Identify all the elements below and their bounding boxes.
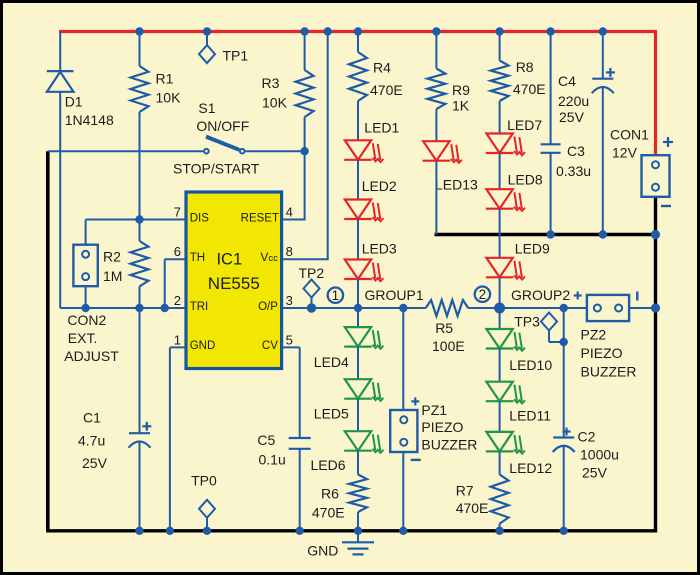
label R3 [262,75,280,91]
node rail-R4 junction [354,27,362,35]
svg-text:C3: C3 [567,143,585,159]
label PZ2 [581,327,607,343]
wire R6 to ground rail [357,512,359,531]
label C4 [558,73,576,89]
svg-text:TH: TH [190,252,205,264]
pin number 7 [174,205,181,220]
svg-text:LED8: LED8 [508,171,543,187]
pin number 8 [286,244,293,259]
label R9 [452,82,470,98]
pin number 2 [174,293,181,308]
svg-text:CON1: CON1 [610,127,649,143]
svg-text:1M: 1M [103,268,122,284]
polarity plus C4 [606,68,615,77]
wire TRI to C1 [139,308,141,433]
wire rail to C4 [602,32,604,79]
wire CV pin stub [282,346,300,348]
svg-text:LED7: LED7 [507,117,542,133]
pin number 6 [174,244,181,259]
label R2 1M [103,268,122,284]
label TP0 [191,473,217,489]
polarity plus C1 [142,422,151,431]
capacitor C4 [592,79,614,94]
resistor R7 [491,475,509,524]
svg-text:4: 4 [286,205,293,220]
svg-text:470E: 470E [312,504,345,520]
svg-text:LED2: LED2 [362,178,397,194]
led LED12 [486,432,525,454]
wire TP0 stub [206,518,208,531]
wire R9 to LED13 [435,109,437,141]
svg-text:LED13: LED13 [435,176,478,192]
capacitor C2 [553,438,575,453]
pin label CV [262,340,278,352]
label C1 [83,410,101,426]
wire GND pin down [169,347,171,530]
resistor R4 [349,52,367,101]
label IC1 [216,251,242,269]
wire black left vertical [46,151,50,531]
wire TRI line [60,307,186,309]
label R9 1K [452,98,470,114]
wire +12V red top rail [59,30,656,33]
wire DIS line [86,219,186,221]
label R2 [103,249,121,265]
svg-text:GND: GND [190,340,216,352]
svg-text:R1: R1 [156,71,174,87]
svg-text:R8: R8 [516,59,534,75]
svg-text:S1: S1 [198,100,215,116]
wire LED1 to LED2 [357,160,359,200]
svg-text:BUZZER: BUZZER [581,364,637,380]
label EXT. [68,330,98,346]
svg-text:4.7u: 4.7u [78,433,105,449]
svg-text:2: 2 [174,293,181,308]
label C4 25V [559,109,585,125]
node TP0-ground junction [203,527,211,535]
label R5 [435,320,453,336]
svg-text:BUZZER: BUZZER [421,437,477,453]
label TP3 [514,313,540,329]
wire R5 to group2 [468,307,564,309]
label C2 1000u [580,446,619,462]
node LED3-output junction [354,304,362,312]
polarity plus CON1 [663,137,673,147]
pin label GND [190,340,216,352]
wire CON2 to TRI line [85,286,87,308]
led LED2 [344,200,383,222]
wire switch to R3 node [244,150,304,152]
svg-text:C1: C1 [83,410,101,426]
label LED2 [362,178,397,194]
label CON1 12V [612,145,638,161]
label R6 [321,486,339,502]
resistor R3 [296,70,314,117]
svg-text:LED10: LED10 [509,357,552,373]
led LED6 [344,431,383,453]
svg-text:C4: C4 [558,73,576,89]
svg-text:IC1: IC1 [216,251,242,269]
wire rail to R9 [435,32,437,69]
wire PZ2 to negative rail [629,307,655,309]
label LED6 [311,457,346,473]
svg-text:NE555: NE555 [208,274,260,293]
node rail-R8 junction [495,27,503,35]
switch S1 left contact [204,149,209,154]
label R8 470E [513,81,546,97]
node output-C2col junction [560,304,568,312]
svg-text:220u: 220u [558,93,589,109]
node rail-R1 junction [135,27,143,35]
label LED12 [509,460,552,476]
node R3-switch junction [300,147,308,155]
svg-text:R5: R5 [435,320,453,336]
label LED1 [364,120,399,136]
label LED11 [509,407,551,423]
label STOP/START [173,161,260,177]
wire LED13 to negative line [435,161,437,235]
wire black negative line from CON1 [435,233,656,236]
label PZ2 PIEZO [581,345,623,361]
svg-text:C2: C2 [578,429,596,445]
svg-text:25V: 25V [82,455,108,471]
svg-text:10K: 10K [262,95,288,111]
wire to PZ2 [564,307,587,309]
label PZ2 BUZZER [581,364,637,380]
svg-text:1K: 1K [452,98,470,114]
svg-text:470E: 470E [456,500,489,516]
label CON1 [610,127,649,143]
node R1-DIS junction [135,215,143,223]
wire LED2 to LED3 [357,219,359,260]
node TH-TRI junction [161,304,169,312]
label NE555 [208,274,260,293]
wire DIS down to CON2 [85,220,87,245]
label PZ1 [421,402,447,418]
wire output to LED4 [357,308,359,327]
node TP3-C2col junction [560,338,568,346]
pin number 4 [286,205,293,220]
label R4 [373,60,391,76]
wire D1 top to rail [59,32,61,72]
node R2-TRI junction [135,304,143,312]
svg-text:3: 3 [286,293,293,308]
label C2 25V [582,465,608,481]
pin number 5 [286,332,293,347]
svg-text:LED1: LED1 [364,120,399,136]
node TP2-output junction [307,303,316,312]
svg-text:DIS: DIS [190,212,210,224]
wire output to LED10 [499,308,501,329]
label LED5 [314,406,349,422]
label R6 470E [312,504,345,520]
wire LED8 to LED9 crossing negative line [499,209,501,258]
node rail-Vcc junction [324,27,332,35]
label R4 470E [370,82,403,98]
label LED9 [515,241,550,257]
svg-text:ADJUST: ADJUST [64,348,119,364]
node circled 1 [328,288,343,304]
wire output to PZ1 [402,308,404,410]
svg-text:0.1u: 0.1u [259,452,286,468]
svg-text:6: 6 [174,244,181,259]
switch S1 lever [206,137,239,150]
switch S1 right contact [240,149,245,154]
testpoint TP0 diamond [199,500,215,518]
wire LED4 to LED5 [357,347,359,380]
label GROUP2 [511,287,570,303]
node R6-ground junction [354,527,362,535]
svg-text:O/P: O/P [258,301,278,313]
wire LED9 to output line [499,277,501,308]
wire rail to C3 [550,32,552,145]
svg-text:R9: R9 [452,82,470,98]
label LED3 [362,240,397,256]
wire GND pin stub [170,346,186,348]
label C1 25V [82,455,108,471]
label ADJUST [64,348,119,364]
svg-text:7: 7 [174,205,181,220]
label S1 [198,100,215,116]
svg-text:R4: R4 [373,60,391,76]
node C1-ground junction [135,527,143,535]
wire LED3 to output line [357,279,359,308]
node PZ2-negative junction [651,303,660,312]
polarity minus PZ1 [411,459,421,461]
wire red rail drop to CON1 plus [654,30,657,155]
wire rail to R8 [499,32,501,61]
svg-text:CV: CV [262,340,278,352]
node C2-ground junction [560,527,568,535]
svg-text:TP2: TP2 [299,265,325,281]
pin number 1 [174,332,181,347]
led LED4 [344,327,383,349]
svg-text:25V: 25V [559,109,585,125]
wire rail to R4 [357,32,359,53]
pin number 3 [286,293,293,308]
svg-text:1N4148: 1N4148 [65,112,114,128]
svg-text:TRI: TRI [190,301,209,313]
polarity plus PZ2 [574,292,582,300]
node rail-TP1 junction [203,27,211,35]
label C2 [578,429,596,445]
ground symbol [342,531,374,555]
op-amp IC1 NE555 body [186,192,282,369]
pin label DIS [190,212,210,224]
svg-text:LED3: LED3 [362,240,397,256]
node rail-C4 junction [599,27,607,35]
pin label O/P [258,301,278,313]
capacitor C1 [129,433,151,448]
label TP2 [299,265,325,281]
svg-text:470E: 470E [370,82,403,98]
svg-text:RESET: RESET [241,212,279,224]
node C3-negative junction [546,230,554,238]
wire Vcc vertical [327,32,329,260]
label LED8 [508,171,543,187]
node CON2-TRI junction [81,304,89,312]
resistor R5 [426,300,468,316]
led LED1 [344,140,383,162]
wire rail to R3 [304,32,306,71]
wire C3 to negative line [550,153,552,235]
svg-text:PZ1: PZ1 [421,402,447,418]
wire C5 to ground rail [299,449,301,531]
svg-text:STOP/START: STOP/START [173,161,260,177]
node PZ1-ground junction [399,527,407,535]
wire C4 to negative line [602,87,604,235]
label C3 [567,143,585,159]
label R1 [156,71,174,87]
svg-text:12V: 12V [612,145,638,161]
label D1 [65,93,83,109]
wire TP1 stub [206,32,208,46]
polarity minus CON1 [661,205,671,207]
label C4 220u [558,93,589,109]
piezo buzzer PZ2 [587,295,629,321]
led LED11 [486,382,525,404]
wire LED12 to R7 [499,451,501,474]
label C5 0.1u [259,452,286,468]
polarity minus PZ2 tick [636,292,638,301]
connector CON2 [73,245,97,287]
wire rail to R1 [139,32,141,67]
led LED5 [344,379,383,401]
label CON2 [67,312,106,328]
resistor R9 [427,69,445,110]
diode D1 [47,71,74,92]
svg-text:PIEZO: PIEZO [581,345,623,361]
wire C1 to ground rail [139,441,141,530]
polarity plus C2 [563,428,571,436]
wire C2 column down [563,308,565,438]
svg-text:PIEZO: PIEZO [421,419,463,435]
wire LED10 to LED11 [499,349,501,382]
svg-text:Vcc: Vcc [260,250,278,264]
svg-text:8: 8 [286,244,293,259]
node rail-R3 junction [300,27,308,35]
svg-text:LED4: LED4 [314,354,349,370]
svg-text:R6: R6 [321,486,339,502]
svg-text:LED9: LED9 [515,241,550,257]
svg-text:10K: 10K [156,90,182,106]
wire R2 top [139,220,141,242]
svg-text:1: 1 [332,288,340,303]
label R7 470E [456,500,489,516]
label C1 4.7u [78,433,105,449]
label ON/OFF [196,118,249,134]
svg-text:ON/OFF: ON/OFF [196,118,249,134]
node R7-ground junction [495,527,503,535]
wire Vcc pin stub [282,258,329,260]
resistor R2 [131,241,149,286]
label R3 10K [262,95,288,111]
led LED8 [486,189,525,211]
svg-text:CON2: CON2 [67,312,106,328]
svg-text:GND: GND [307,542,338,558]
testpoint TP2 diamond [304,280,320,298]
led LED9 [486,258,525,280]
wire CV down to C5 [299,347,301,438]
svg-text:EXT.: EXT. [68,330,98,346]
wire R8 to LED7 [499,101,501,134]
testpoint TP1 diamond [199,45,215,63]
wire R7 to ground rail [499,524,501,531]
wire R1 to DIS line [139,112,141,220]
svg-text:LED11: LED11 [509,407,551,423]
wire LED5 to LED6 [357,399,359,432]
polarity plus PZ1 [411,397,419,405]
led LED3 [344,260,383,282]
svg-text:25V: 25V [582,465,608,481]
label 1N4148 [65,112,114,128]
pin label Vcc [260,250,278,264]
node LED9-output junction [494,303,505,314]
svg-text:D1: D1 [65,93,83,109]
piezo buzzer PZ1 [390,410,417,452]
node C5-ground junction [296,527,304,535]
svg-text:R2: R2 [103,249,121,265]
svg-text:GROUP1: GROUP1 [365,287,424,303]
led LED7 [486,134,525,156]
wire O/P pin line [282,307,426,309]
wire R2 bottom [139,286,141,308]
testpoint TP3 diamond [541,313,557,331]
wire reset vertical [304,151,306,219]
node rail-C3 junction [546,27,554,35]
capacitor C5 [289,438,311,449]
label R8 [516,59,534,75]
svg-text:100E: 100E [432,338,465,354]
label LED10 [509,357,552,373]
wire ground line to switch [48,150,204,152]
label R5 100E [432,338,465,354]
svg-text:TP0: TP0 [191,473,217,489]
label R1 10K [156,90,182,106]
led LED10 [486,329,525,351]
wire LED7 to LED8 [499,153,501,189]
svg-text:TP3: TP3 [514,313,540,329]
pin label TH [190,252,205,264]
node circled 2 [475,287,490,303]
resistor R1 [131,66,149,112]
pin label RESET [241,212,279,224]
label PZ1 PIEZO [421,419,463,435]
label R7 [456,483,474,499]
svg-text:1000u: 1000u [580,446,619,462]
label LED13 [435,176,478,192]
resistor R6 [349,475,367,513]
connector CON1 [642,155,670,197]
svg-text:2: 2 [479,287,487,302]
wire reset pin stub [282,219,306,221]
wire R3 to switch line [304,117,306,151]
node negative-corner junction [651,230,660,239]
svg-text:1: 1 [174,332,181,347]
wire LED11 to LED12 [499,401,501,432]
svg-text:5: 5 [286,332,293,347]
wire C2 to ground rail [563,446,565,531]
svg-text:R7: R7 [456,483,474,499]
svg-text:GROUP2: GROUP2 [511,287,570,303]
label LED4 [314,354,349,370]
capacitor C3 [541,144,561,153]
led LED13 [423,141,462,163]
label GND [307,542,338,558]
label GROUP1 [365,287,424,303]
svg-text:C5: C5 [257,432,275,448]
node PZ1-output junction [399,304,407,312]
